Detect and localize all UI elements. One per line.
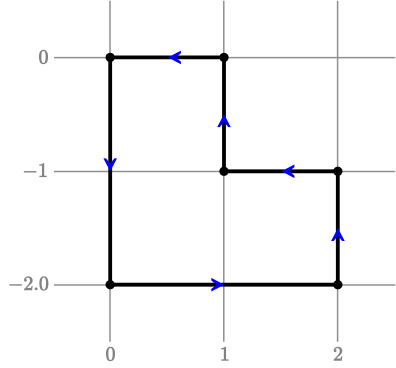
x tick label 2 xyxy=(334,347,342,360)
arrow up on middle vertical segment xyxy=(217,114,231,127)
vertex (2,-1) xyxy=(333,167,342,176)
grid line y=0 xyxy=(54,57,395,59)
arrow up on right vertical segment xyxy=(331,228,345,241)
vertex (0,-2) xyxy=(106,280,115,289)
vertex (0,0) xyxy=(106,53,115,62)
vertex (2,-2) xyxy=(333,280,342,289)
arrow left on y=-1 segment xyxy=(281,165,294,179)
grid line y=-1 xyxy=(54,171,395,173)
x tick label 0 xyxy=(106,347,114,361)
x tick label 1 xyxy=(222,347,229,360)
arrow right on bottom segment xyxy=(211,278,224,292)
contour path (closed polygon) xyxy=(110,57,338,284)
grid line x=2 xyxy=(337,1,339,342)
y tick label -2.0 xyxy=(9,277,48,291)
y tick label 0 xyxy=(39,50,47,64)
y tick label -1 xyxy=(24,164,46,177)
grid line x=1 xyxy=(223,1,225,342)
vertex (1,0) xyxy=(219,53,228,62)
grid line y=-2 xyxy=(54,284,395,286)
arrow down on left vertical segment xyxy=(103,158,117,171)
grid line x=0 xyxy=(109,1,111,342)
vertex (1,-1) xyxy=(219,167,228,176)
arrow left on top segment xyxy=(168,51,181,65)
